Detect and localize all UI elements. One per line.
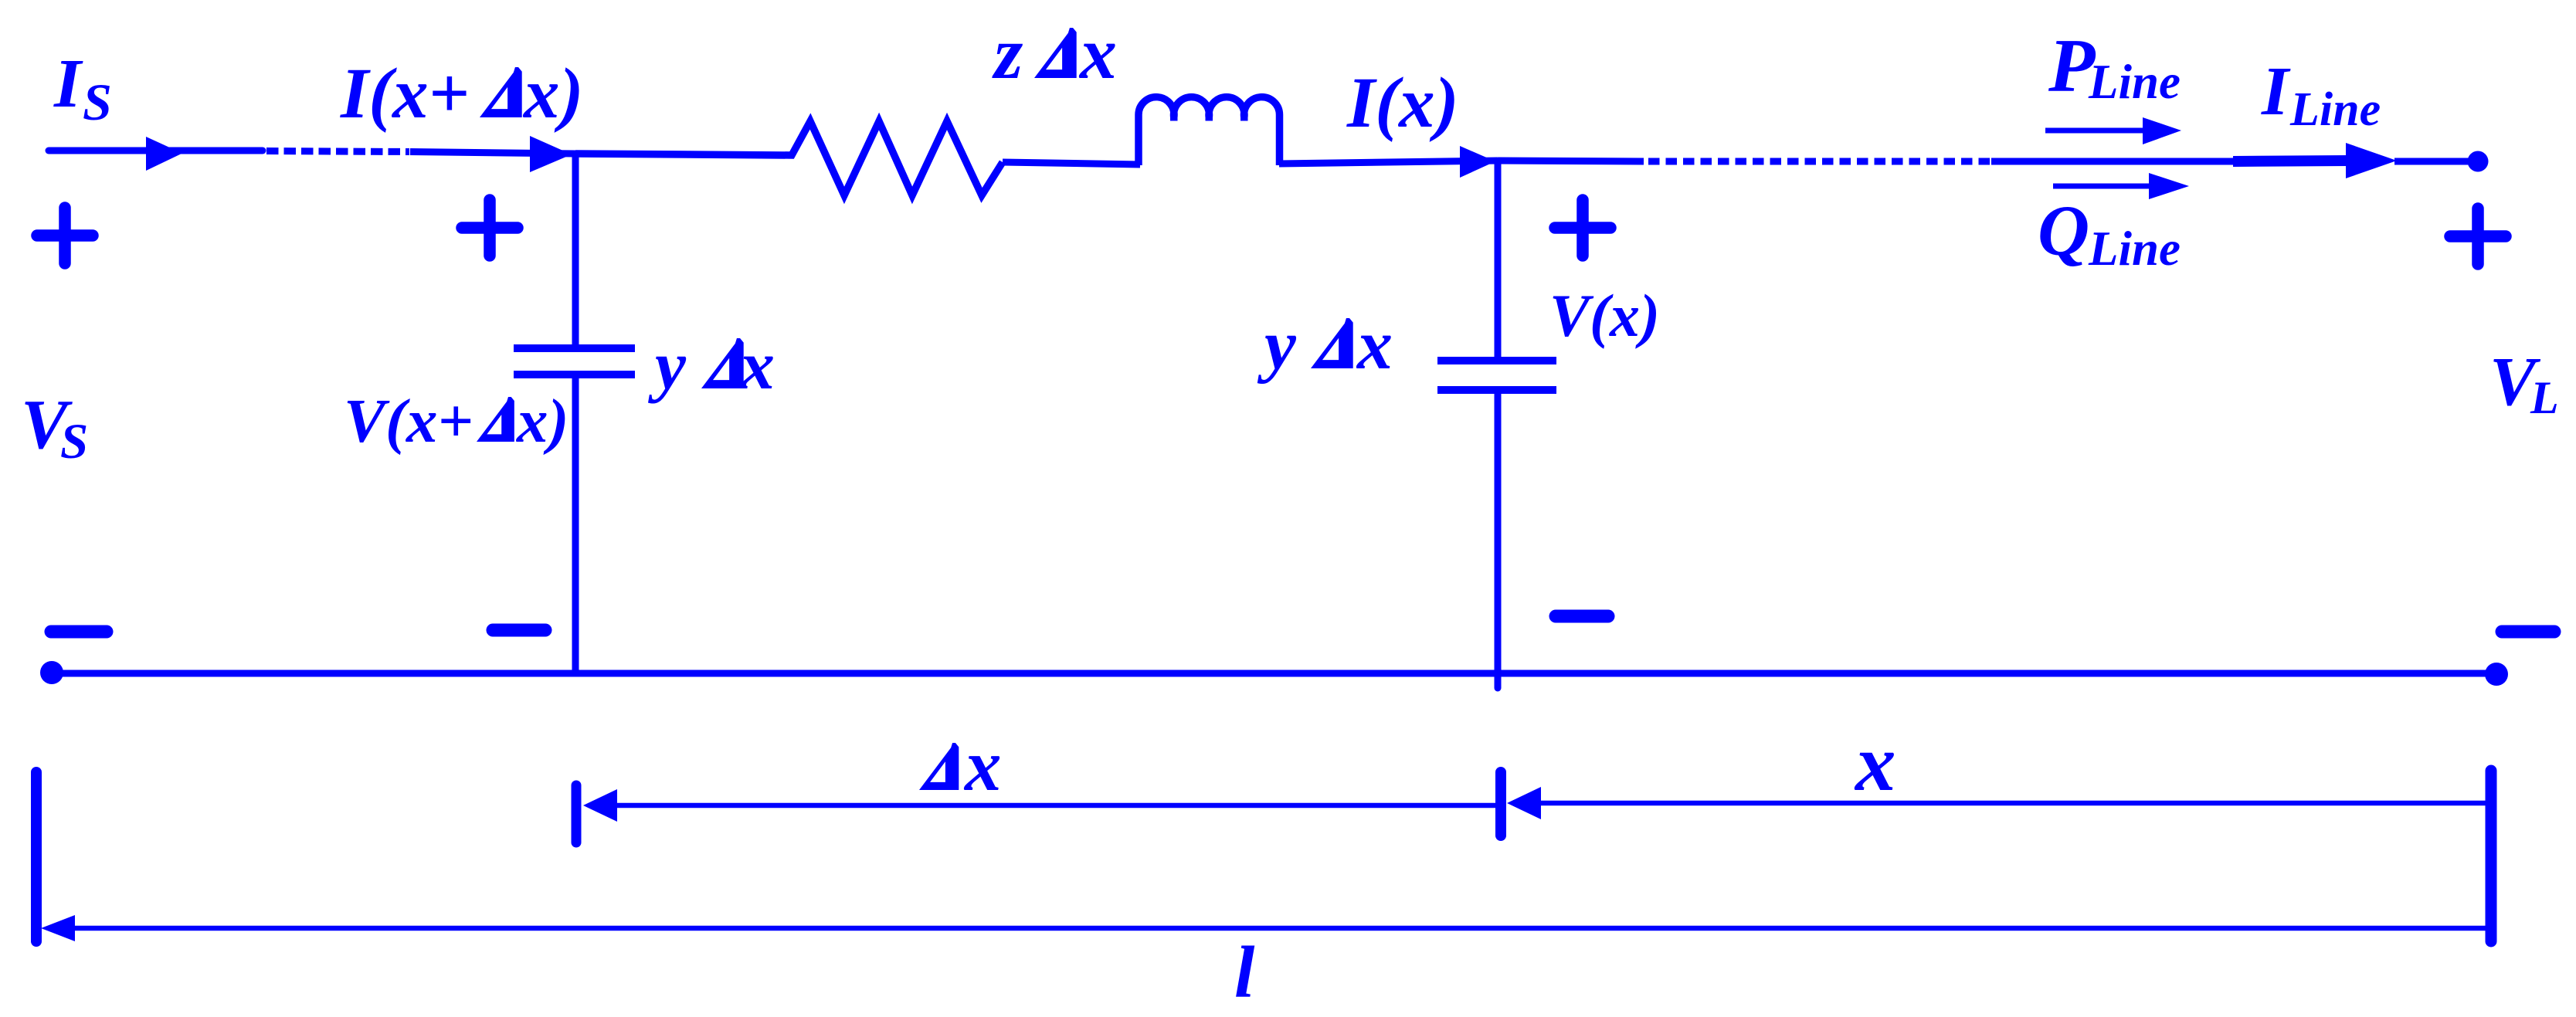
svg-text:x: x (1356, 305, 1393, 384)
dimension tick right end (2486, 771, 2497, 941)
node B vertical (upper) (1495, 158, 1502, 357)
plus sign source (37, 208, 93, 263)
svg-text:l: l (1234, 931, 1255, 1013)
node B vertical (lower) (1495, 394, 1502, 688)
arrowhead I(x) (1460, 146, 1495, 178)
wire: source current lead-in (solid left) (49, 147, 263, 154)
dimension tick node A (572, 785, 582, 842)
svg-text:S: S (60, 414, 88, 470)
minus sign load (2502, 625, 2554, 639)
arrow P_Line (2045, 128, 2147, 134)
wire: I_Line emphasized bar (2233, 161, 2348, 161)
capacitor C2 top plate (1437, 357, 1556, 364)
dimension line dx (610, 803, 1495, 809)
svg-text:Line: Line (2289, 83, 2381, 136)
svg-text:Line: Line (2088, 55, 2181, 109)
node A vertical (lower) (572, 378, 579, 673)
wire: node B to dashes (1498, 161, 1644, 161)
arrowhead I_S (146, 137, 182, 171)
capacitor C1 bottom plate (514, 371, 635, 378)
svg-text:I(x+: I(x+ (340, 54, 470, 134)
arrowhead I_Line (2346, 143, 2397, 178)
label dx dimension (919, 743, 959, 790)
svg-text:V(x+: V(x+ (344, 386, 473, 456)
plus sign load (2450, 208, 2506, 264)
svg-text:x: x (963, 724, 1002, 806)
terminal dot bottom right (2485, 663, 2508, 686)
svg-text:Line: Line (2088, 222, 2181, 276)
dimension line l (70, 926, 2486, 931)
wire: arrow to terminal dot (2394, 158, 2469, 165)
svg-text:x): x) (522, 54, 583, 134)
minus sign node A (493, 624, 545, 637)
arrowhead l (41, 915, 75, 941)
arrowhead dx (583, 789, 617, 822)
resistor R (z dx) (575, 121, 1003, 195)
wire: dashed segment left (266, 151, 409, 152)
dimension tick node B (1495, 772, 1506, 836)
svg-text:I(x): I(x) (1346, 63, 1459, 143)
bottom return wire (52, 670, 2496, 677)
dimension line x (1536, 801, 2486, 806)
wire: inductor to node B (1279, 161, 1498, 164)
wire: dashed segment right (1648, 158, 1991, 165)
svg-text:x: x (738, 327, 775, 404)
wire: solid to load (1991, 158, 2234, 165)
wire: resistor to inductor (1003, 162, 1140, 164)
node A vertical (upper) (572, 151, 579, 344)
capacitor C1 top plate (514, 344, 635, 352)
svg-text:x: x (1078, 12, 1117, 94)
svg-text:S: S (83, 73, 112, 131)
svg-text:z: z (992, 12, 1023, 94)
arrowhead x (1507, 787, 1541, 819)
plus sign node A (462, 200, 518, 256)
terminal dot top right (2468, 151, 2489, 172)
svg-text:V(x): V(x) (1549, 282, 1660, 349)
svg-text:x): x) (516, 386, 568, 456)
wire: solid to node A (410, 152, 575, 154)
minus sign source (51, 625, 107, 639)
plus sign node B (1555, 200, 1610, 256)
capacitor C2 bottom plate (1437, 386, 1556, 394)
arrowhead I(x+dx) (530, 136, 572, 172)
svg-text:I: I (2261, 53, 2291, 130)
svg-text:Q: Q (2038, 192, 2089, 271)
terminal dot bottom left (40, 661, 63, 684)
arrow Q_Line (2053, 184, 2153, 189)
svg-text:x: x (1854, 717, 1896, 808)
minus sign node B (1556, 610, 1608, 623)
inductor L (z dx) (1139, 97, 1280, 165)
svg-text:L: L (2530, 372, 2559, 423)
svg-text:I: I (53, 46, 83, 122)
dimension tick left end (31, 772, 42, 941)
